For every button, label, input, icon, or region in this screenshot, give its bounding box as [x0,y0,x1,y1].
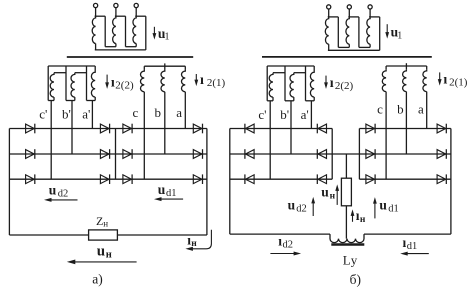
svg-text:d1: d1 [388,203,399,214]
svg-text:2(1): 2(1) [207,77,226,89]
svg-text:c: c [377,102,383,117]
svg-text:d1: d1 [166,188,177,199]
svg-text:Lу: Lу [343,253,358,268]
svg-text:c': c' [258,107,266,122]
svg-text:c': c' [39,106,47,121]
svg-text:2(2): 2(2) [115,80,134,92]
svg-text:b': b' [62,106,71,121]
svg-text:н: н [330,191,336,201]
svg-text:а): а) [92,271,103,286]
svg-text:н: н [360,215,366,225]
svg-text:b: b [154,105,161,120]
svg-text:б): б) [350,272,361,287]
svg-text:d2: d2 [283,239,294,250]
svg-text:a': a' [301,107,309,122]
svg-text:d1: d1 [407,241,418,252]
svg-text:Z: Z [96,214,103,228]
svg-text:ı: ı [200,73,204,88]
svg-text:ı: ı [330,76,334,91]
svg-text:a: a [418,102,424,117]
svg-text:d2: d2 [296,203,307,214]
svg-text:u: u [321,185,329,200]
svg-text:b: b [397,102,404,117]
svg-text:a: a [176,105,182,120]
svg-text:u: u [288,197,296,212]
svg-text:u: u [158,182,166,197]
svg-text:1: 1 [397,30,402,41]
svg-text:ı: ı [443,73,447,88]
svg-text:c: c [133,105,139,120]
svg-text:н: н [103,219,108,229]
svg-text:ı: ı [111,76,115,91]
svg-text:н: н [191,239,197,249]
svg-text:d2: d2 [58,189,69,200]
svg-text:u: u [97,244,105,260]
svg-text:u: u [379,198,387,213]
svg-text:2(2): 2(2) [335,80,354,92]
svg-text:н: н [106,249,112,260]
svg-text:1: 1 [165,32,170,43]
svg-text:u: u [49,183,57,198]
svg-text:2(1): 2(1) [449,77,468,89]
svg-text:b': b' [280,107,289,122]
svg-text:a': a' [82,106,90,121]
